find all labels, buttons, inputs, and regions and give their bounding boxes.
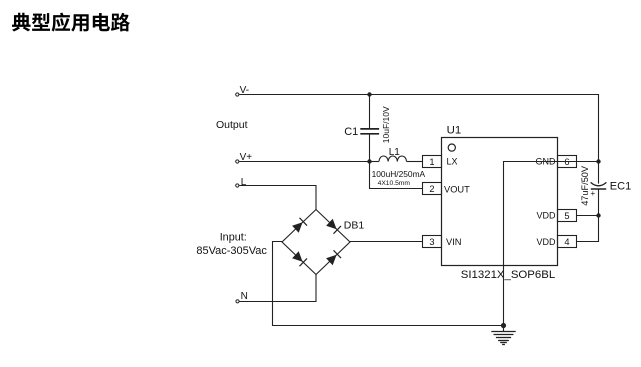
- wire bridge - to ground rail: [273, 242, 504, 326]
- junction node EC1 bottom / VDD: [596, 213, 600, 217]
- capacitor EC1: [591, 162, 607, 216]
- junction node V- / C1: [367, 92, 371, 96]
- svg-text:LX: LX: [447, 157, 458, 167]
- junction node ground rail: [501, 323, 506, 328]
- svg-text:VDD: VDD: [536, 237, 556, 247]
- svg-text:C1: C1: [344, 126, 358, 138]
- title 典型应用电路: [12, 13, 130, 32]
- svg-text:Output: Output: [216, 119, 248, 131]
- svg-text:+: +: [591, 189, 596, 198]
- wire V- rail to EC1 column: [239, 95, 598, 162]
- terminal V-: [236, 93, 239, 96]
- junction node V+ / C1 / L1: [367, 159, 371, 163]
- svg-text:100uH/250mA: 100uH/250mA: [372, 169, 426, 179]
- wire GND pin through IC to ground: [504, 162, 599, 326]
- inductor L1: [370, 156, 423, 162]
- svg-text:VIN: VIN: [446, 237, 462, 247]
- svg-text:10uF/10V: 10uF/10V: [381, 106, 391, 143]
- svg-text:4: 4: [564, 237, 569, 247]
- svg-text:85Vac-305Vac: 85Vac-305Vac: [196, 245, 267, 257]
- bridge rectifier DB1: [282, 210, 350, 275]
- wire V+ to VOUT pin: [370, 162, 423, 189]
- svg-text:N: N: [241, 291, 248, 302]
- svg-text:4X10.5mm: 4X10.5mm: [378, 180, 411, 187]
- wire bridge + to VIN: [350, 241, 423, 243]
- terminal L: [236, 184, 239, 187]
- wire V+ rail: [239, 161, 369, 163]
- svg-text:VDD: VDD: [536, 211, 556, 221]
- pin 4 VDD: [558, 236, 577, 248]
- svg-text:Input:: Input:: [220, 232, 247, 244]
- IC pin-1 indicator: [448, 144, 455, 151]
- svg-text:47uF/50V: 47uF/50V: [580, 165, 590, 206]
- svg-text:DB1: DB1: [344, 220, 365, 232]
- svg-text:L1: L1: [389, 147, 401, 158]
- capacitor C1: [360, 95, 379, 162]
- pin 2 VOUT: [423, 183, 442, 195]
- svg-text:VOUT: VOUT: [444, 184, 470, 194]
- terminal N: [236, 300, 239, 303]
- terminal V+: [236, 160, 239, 163]
- svg-text:3: 3: [429, 237, 434, 247]
- svg-text:1: 1: [429, 157, 434, 167]
- wire N to bridge bottom: [239, 275, 316, 302]
- pin 6 GND: [558, 156, 577, 168]
- wire L to bridge top: [239, 186, 316, 210]
- pin 1 LX: [423, 156, 442, 168]
- op-amp U1 body: [442, 138, 558, 266]
- svg-text:U1: U1: [447, 125, 462, 137]
- pin 5 VDD: [558, 210, 577, 222]
- pin 3 VIN: [423, 236, 442, 248]
- svg-text:SI1321X_SOP6BL: SI1321X_SOP6BL: [461, 269, 555, 281]
- svg-text:5: 5: [564, 211, 569, 221]
- wire VDD pin 4 loop: [577, 216, 599, 242]
- svg-text:2: 2: [429, 184, 434, 194]
- ground: [491, 326, 515, 345]
- svg-text:EC1: EC1: [610, 180, 631, 192]
- junction node GND / EC1 top: [596, 159, 600, 163]
- svg-text:L: L: [241, 177, 247, 188]
- wire EC1 to VDD pin 5: [577, 215, 599, 217]
